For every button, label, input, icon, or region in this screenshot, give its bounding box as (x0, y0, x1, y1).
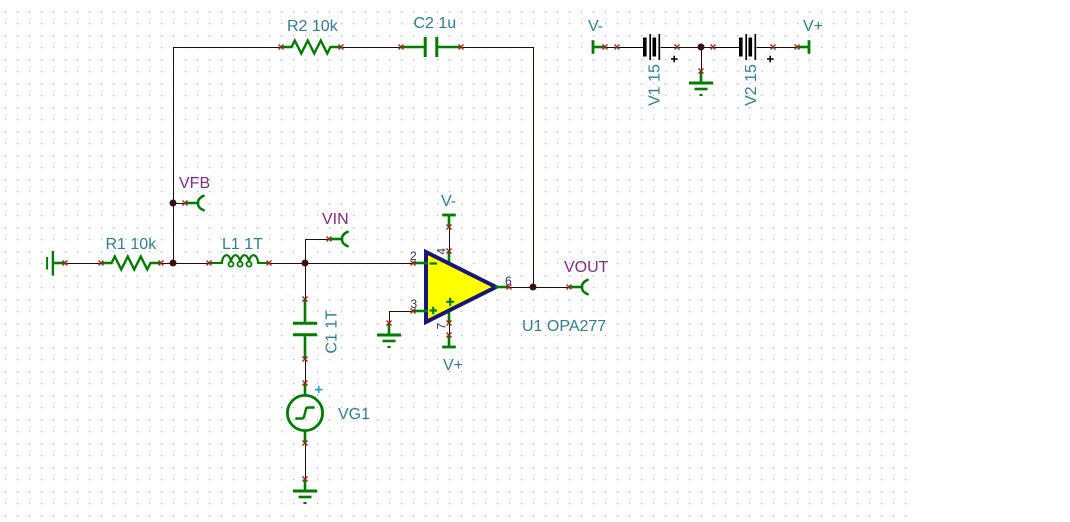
svg-text:VFB: VFB (179, 175, 210, 192)
svg-text:V1 15: V1 15 (646, 64, 663, 106)
svg-text:R1 10k: R1 10k (106, 236, 158, 253)
svg-text:V+: V+ (443, 357, 463, 374)
svg-text:VIN: VIN (322, 211, 349, 228)
svg-text:V+: V+ (803, 18, 823, 35)
svg-text:V-: V- (441, 193, 456, 210)
svg-text:V2 15: V2 15 (743, 64, 760, 106)
svg-text:3: 3 (411, 297, 418, 311)
svg-text:4: 4 (435, 248, 449, 255)
svg-text:R2 10k: R2 10k (287, 18, 339, 35)
svg-text:VOUT: VOUT (564, 259, 609, 276)
svg-text:L1 1T: L1 1T (222, 236, 263, 253)
svg-text:VG1: VG1 (338, 406, 370, 423)
svg-text:V-: V- (588, 18, 603, 35)
svg-text:C2 1u: C2 1u (414, 15, 457, 32)
svg-text:7: 7 (435, 323, 449, 330)
svg-text:6: 6 (505, 274, 512, 288)
svg-text:U1 OPA277: U1 OPA277 (522, 318, 606, 335)
svg-text:C1 1T: C1 1T (323, 310, 340, 354)
svg-text:2: 2 (410, 249, 417, 263)
